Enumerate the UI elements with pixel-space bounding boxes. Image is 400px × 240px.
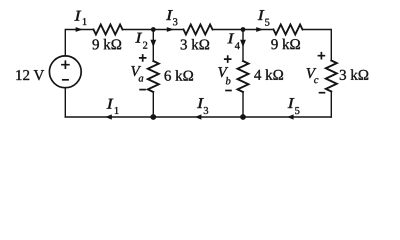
minus sign right branch polarity — [319, 92, 326, 94]
branch B wire from node B to R5 — [242, 30, 244, 62]
plus sign inside source — [61, 60, 70, 69]
label 3 kOhm (R6 value) — [340, 69, 368, 80]
resistor R4 6k ohm branch A vertical zigzag — [148, 61, 159, 92]
label I1 (top current) — [74, 11, 81, 21]
plus sign branch B polarity — [224, 55, 232, 63]
label I3 bottom subscript — [204, 107, 208, 114]
label I3 subscript — [173, 18, 177, 25]
branch A wire R4 to bottom rail — [152, 92, 154, 117]
bottom return wire — [65, 116, 331, 118]
label I3 (top current) — [166, 10, 173, 20]
junction dot bottom under node A — [150, 114, 156, 120]
plus sign branch A polarity — [139, 54, 147, 62]
plus sign right branch polarity — [318, 52, 326, 60]
label I1 subscript — [83, 18, 87, 25]
arrowhead current I3 bottom (leftward) — [195, 114, 202, 119]
wire R1 to node A — [123, 29, 184, 31]
arrowhead current I2 branch A (downward) — [150, 40, 156, 48]
wire from source top to R1 — [65, 30, 93, 56]
minus sign branch A polarity — [139, 89, 146, 91]
label Vc (right branch voltage) — [307, 68, 317, 78]
wire R2 to node B — [213, 29, 274, 31]
label 12 V (source value) — [16, 70, 44, 80]
minus sign inside source — [62, 79, 69, 81]
resistor R3 9k ohm top-right zigzag — [274, 25, 303, 35]
label I1 bottom subscript — [115, 107, 119, 114]
label Vb subscript — [226, 77, 231, 84]
branch B wire R5 to bottom rail — [242, 92, 244, 117]
label I5 bottom subscript — [295, 107, 299, 114]
arrowhead current I3 top (rightward) — [167, 27, 174, 32]
label 4 kOhm (R5 value) — [254, 69, 283, 79]
label Va subscript — [139, 77, 144, 82]
label Vb (branch B voltage) — [218, 67, 228, 77]
arrowhead current I5 bottom (leftward) — [287, 114, 294, 119]
label I1 (bottom return current) — [107, 99, 114, 109]
wire top-right corner down to R6 — [303, 30, 332, 61]
arrowhead current I5 top (rightward) — [256, 27, 263, 32]
label I2 (branch A current) — [135, 33, 142, 43]
resistor R6 3k ohm right vertical zigzag — [326, 61, 337, 92]
arrowhead current I1 top (rightward) — [76, 27, 83, 32]
label I5 (bottom return current) — [288, 98, 295, 108]
resistor R1 9k ohm top-left zigzag — [94, 25, 123, 35]
label I5 (top current) — [258, 10, 265, 20]
resistor R2 3k ohm top-middle zigzag — [184, 25, 213, 35]
wire source bottom to bottom rail — [64, 88, 66, 117]
label I4 (branch B current) — [227, 33, 234, 43]
branch A wire from node A to R4 — [152, 30, 154, 62]
label 9 kOhm (R3 value) — [271, 39, 300, 50]
node B junction dot top — [241, 27, 246, 32]
node A junction dot top — [151, 27, 156, 32]
label Va (branch A voltage) — [131, 66, 141, 76]
label Vc subscript — [314, 78, 318, 83]
label I2 subscript — [143, 42, 147, 49]
arrowhead current I1 bottom (leftward) — [105, 114, 112, 119]
minus sign branch B polarity — [225, 90, 232, 92]
junction dot bottom under node B — [240, 114, 246, 120]
label 9 kOhm (R1 value) — [92, 39, 121, 50]
wire right branch to bottom — [330, 92, 332, 118]
label 3 kOhm (R2 value) — [181, 39, 209, 50]
arrowhead current I4 branch B (downward) — [240, 40, 246, 48]
label I4 subscript — [235, 42, 240, 49]
voltage source circle 12 V — [49, 56, 81, 88]
label I3 (bottom return current) — [197, 98, 204, 108]
label I5 subscript — [265, 19, 269, 26]
resistor R5 4k ohm branch B vertical zigzag — [238, 61, 249, 92]
label 6 kOhm (R4 value) — [165, 70, 193, 81]
